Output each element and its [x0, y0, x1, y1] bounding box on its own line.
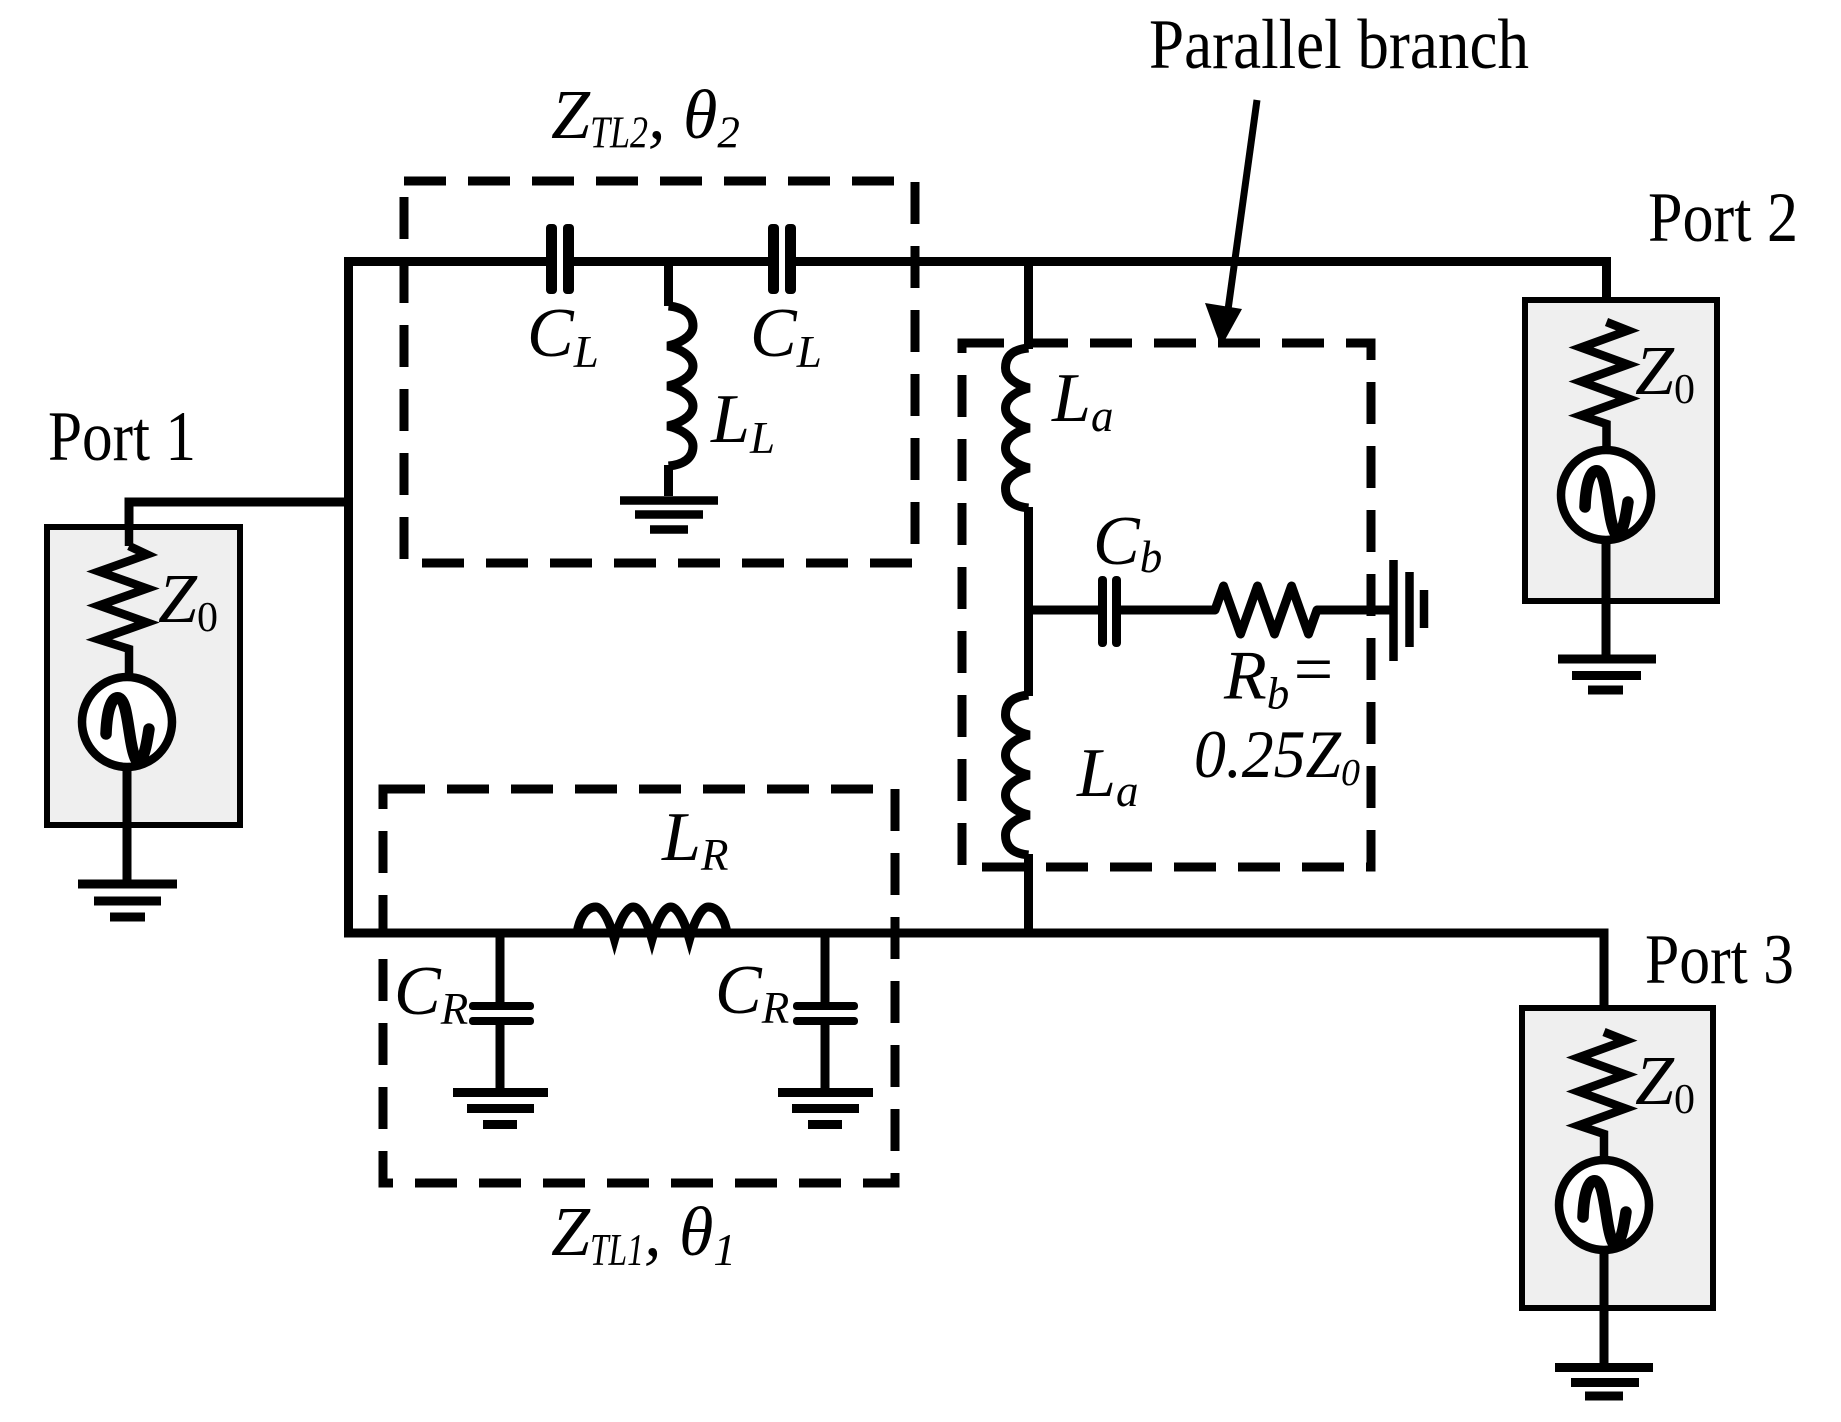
wire Port 1 feed: [129, 502, 352, 546]
svg-text:Port 2: Port 2: [1648, 179, 1798, 257]
wire port 1 to ground: [123, 767, 132, 884]
resistor Z0 port 2: [1581, 322, 1628, 450]
arrow to parallel branch box: [1205, 100, 1257, 347]
svg-text:ZTL1, θ1: ZTL1, θ1: [551, 1194, 736, 1275]
ground under L_L: [620, 501, 718, 530]
svg-text:0.25Z0: 0.25Z0: [1194, 716, 1360, 794]
capacitor C_R (right): [793, 933, 858, 1092]
wire R_b to ground: [1317, 606, 1394, 615]
ground port 2: [1558, 659, 1656, 690]
capacitor C_b: [1098, 576, 1121, 647]
wire C_b to R_b: [1121, 606, 1215, 615]
AC source port 1: [82, 677, 172, 767]
capacitor C_L (left): [546, 224, 574, 294]
ground port 3: [1555, 1368, 1653, 1397]
wire top bus from node A to Port 2: [344, 257, 1611, 266]
wire parallel branch vertical bottom: [1024, 854, 1033, 933]
dashed box Parallel branch: [962, 343, 1371, 867]
resistor R_b: [1215, 586, 1317, 634]
dashed box Z_TL2 section: [404, 181, 915, 563]
wire port 2 to ground: [1602, 540, 1611, 659]
svg-text:Port 3: Port 3: [1645, 921, 1794, 999]
port 2 source box: [1525, 300, 1717, 601]
inductor L_R series: [577, 907, 727, 939]
AC source port 2: [1561, 450, 1651, 540]
ground under C_R right: [778, 1093, 873, 1125]
wire between L_a coils: [1024, 507, 1033, 696]
resistor Z0 port 1: [99, 527, 147, 677]
wire Port 3 drop: [1600, 933, 1609, 1032]
inductor L_a (top): [1006, 348, 1030, 508]
wire bottom bus to Port 3: [344, 929, 1609, 938]
port 3 source box: [1522, 1008, 1713, 1308]
port 1 source box: [47, 527, 240, 825]
AC source port 3: [1559, 1160, 1649, 1250]
inductor L_L shunt: [668, 262, 694, 497]
wire Port 2 drop: [1602, 262, 1611, 323]
capacitor C_R (left): [469, 933, 534, 1092]
ground right-facing after R_b: [1394, 560, 1425, 661]
wire branch horizontal to C_b: [1028, 606, 1098, 615]
svg-text:Parallel branch: Parallel branch: [1149, 6, 1529, 84]
resistor Z0 port 3: [1579, 1032, 1626, 1160]
inductor L_a (bottom): [1006, 695, 1030, 855]
wire left vertical bus: [344, 257, 353, 933]
capacitor C_L (right): [768, 224, 796, 294]
wire port 3 to ground: [1600, 1250, 1609, 1367]
ground port 1: [78, 884, 177, 917]
svg-text:Port 1: Port 1: [48, 398, 196, 476]
ground under C_R left: [453, 1093, 548, 1125]
wire parallel branch vertical top: [1024, 257, 1033, 349]
dashed box Z_TL1 section: [383, 789, 895, 1183]
